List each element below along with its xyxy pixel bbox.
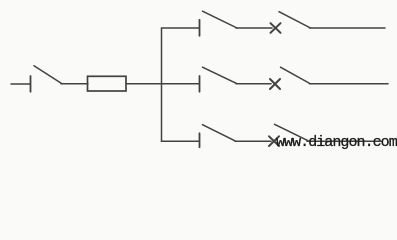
wire S1b to end	[310, 27, 386, 29]
wire S2b to end	[310, 83, 389, 85]
fuse FU rectangle	[88, 76, 127, 91]
switch S2b blade	[281, 67, 311, 84]
cross X3	[269, 136, 279, 146]
cross X1	[271, 23, 281, 33]
wire QS to FU	[61, 83, 88, 85]
wire S3 to X3	[235, 140, 271, 142]
wire bus elbow to S3	[162, 140, 200, 142]
svg-text:www.diangon.com: www.diangon.com	[276, 134, 397, 151]
node A vertical bus	[161, 28, 163, 141]
wire S1 to X1	[236, 27, 272, 29]
switch S3 fixed contact bar	[199, 133, 201, 147]
wire input stub	[11, 83, 30, 85]
wire bus to S1	[162, 27, 200, 29]
wire FU to S2 (crosses bus at node A)	[126, 83, 199, 85]
cross X2	[270, 79, 280, 89]
switch S1 blade	[203, 11, 238, 28]
switch S2 fixed contact bar	[199, 76, 201, 92]
wire S2 to X2	[236, 83, 271, 85]
switch S1 fixed contact bar	[199, 20, 201, 36]
switch S3b blade	[275, 124, 309, 140]
switch S1b blade	[279, 12, 311, 28]
switch QS blade	[34, 66, 62, 84]
wire S3b to end	[307, 140, 381, 142]
switch S3 blade	[203, 125, 237, 142]
switch QS fixed contact bar	[30, 76, 32, 92]
switch S2 blade	[203, 67, 238, 84]
